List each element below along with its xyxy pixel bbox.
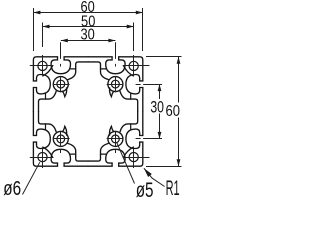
arrow R1 leader bbox=[144, 168, 152, 177]
arrow 50 left bbox=[43, 25, 50, 29]
arrow 60 top left bbox=[33, 11, 40, 15]
svg-text:ø6: ø6 bbox=[3, 178, 21, 200]
arrow 30 right bbox=[108, 39, 115, 43]
centerline 5mm hole BL bbox=[53, 131, 70, 147]
svg-text:60: 60 bbox=[165, 102, 180, 120]
dim line 30 top bbox=[61, 40, 116, 42]
dim line right 60 bbox=[178, 57, 180, 166]
centerline right slot upper / ext line of right 30 dim bbox=[136, 84, 162, 86]
centerline top slot right / ext line of 30 dim bbox=[115, 42, 117, 66]
ext line right 60 dim top bbox=[146, 56, 182, 58]
profile quadrant TL bbox=[33, 57, 88, 112]
ext line 60 dim right bbox=[142, 8, 144, 51]
dim line right 30 bbox=[159, 84, 161, 139]
arrow 30 left bbox=[61, 39, 68, 43]
profile quadrant TR (mirrored) bbox=[88, 57, 143, 112]
leader line for Ø6 bbox=[23, 162, 40, 194]
centerline bottom slot right bbox=[115, 150, 117, 154]
leader line for R1 bbox=[144, 168, 165, 186]
svg-text:30: 30 bbox=[80, 26, 95, 43]
svg-text:30: 30 bbox=[150, 99, 164, 117]
ext line 60 dim left bbox=[33, 8, 35, 51]
centerline corner hole TR bbox=[123, 55, 150, 74]
ext line 50 dim left bbox=[42, 23, 44, 48]
arrow right 30 top bbox=[158, 84, 162, 91]
svg-text:R1: R1 bbox=[166, 177, 180, 200]
centerline top slot left / ext line of 30 dim bbox=[60, 42, 62, 66]
svg-text:ø5: ø5 bbox=[136, 178, 154, 201]
profile quadrant BR (mirrored) bbox=[88, 112, 143, 167]
centerline 5mm hole TR bbox=[107, 76, 124, 92]
ext line 50 dim right bbox=[133, 23, 135, 52]
arrow 60 top right bbox=[136, 11, 143, 15]
arrow right 60 bottom bbox=[177, 159, 181, 166]
centerline 5mm hole BR bbox=[107, 131, 124, 147]
leader line for Ø5 bbox=[117, 143, 135, 184]
centerline corner hole BR bbox=[123, 149, 150, 168]
arrow 50 right bbox=[127, 25, 134, 29]
dim line 60 top bbox=[33, 12, 142, 14]
centerline corner hole TL bbox=[30, 55, 54, 74]
centerline bottom slot left bbox=[60, 150, 62, 154]
centerline 5mm hole TL bbox=[53, 76, 70, 92]
ext line right 60 dim bottom bbox=[146, 166, 182, 168]
dim line 50 top bbox=[43, 26, 134, 28]
arrow right 30 bottom bbox=[158, 132, 162, 139]
centerline right slot lower / ext line of right 30 dim bbox=[136, 138, 162, 140]
arrow right 60 top bbox=[177, 57, 181, 64]
profile quadrant BL (mirrored) bbox=[33, 112, 88, 167]
centerline corner hole BL bbox=[30, 149, 54, 168]
